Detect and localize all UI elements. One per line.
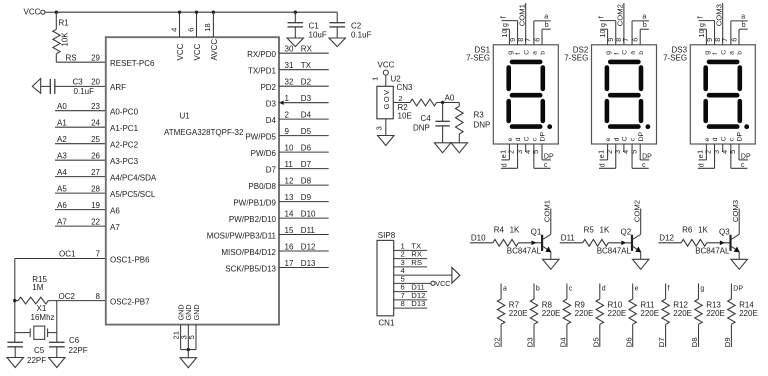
wire COM2 (DS2 pin 8) — [623, 3, 625, 45]
svg-text:7: 7 — [96, 250, 101, 259]
wire D11 — [560, 242, 583, 244]
svg-text:10: 10 — [500, 30, 509, 38]
svg-text:b: b — [638, 51, 645, 55]
svg-text:g: g — [699, 23, 706, 27]
segment e — [506, 101, 511, 121]
svg-text:f: f — [668, 285, 670, 292]
ground — [434, 143, 450, 153]
segment a — [512, 60, 540, 65]
svg-text:COM1: COM1 — [543, 200, 552, 222]
svg-text:TX: TX — [301, 61, 312, 70]
svg-text:A3: A3 — [57, 152, 67, 161]
segment DP — [547, 124, 552, 129]
svg-text:SCK/PB5/D13: SCK/PB5/D13 — [225, 264, 276, 273]
svg-text:OC2: OC2 — [59, 292, 76, 301]
svg-text:RESET-PC6: RESET-PC6 — [110, 59, 155, 68]
wire A3 pin 26 — [55, 159, 106, 161]
wire — [14, 259, 16, 343]
segment e — [703, 101, 708, 121]
svg-text:30: 30 — [285, 45, 294, 54]
svg-text:c: c — [544, 162, 548, 169]
svg-text:R3: R3 — [474, 110, 485, 119]
svg-text:c: c — [531, 137, 538, 141]
resistor R13 220E — [698, 284, 700, 300]
resistor R6 1K — [681, 239, 707, 246]
svg-text:Q2: Q2 — [621, 228, 632, 237]
svg-text:b: b — [536, 285, 540, 292]
svg-text:14: 14 — [285, 209, 294, 218]
svg-text:OSC2-PB7: OSC2-PB7 — [110, 297, 150, 306]
svg-text:a: a — [728, 51, 735, 55]
wire A0 pin 23 — [55, 110, 106, 112]
svg-text:CN3: CN3 — [397, 83, 414, 92]
svg-text:18: 18 — [203, 23, 212, 32]
svg-text:R12: R12 — [673, 300, 688, 309]
wire segment DP (DS3 pin 5) — [738, 144, 740, 160]
svg-text:23: 23 — [91, 102, 100, 111]
svg-text:d: d — [602, 285, 606, 292]
svg-text:f: f — [599, 16, 606, 18]
svg-text:6: 6 — [186, 28, 195, 32]
svg-text:1K: 1K — [600, 225, 610, 234]
wire segment c (DS3 pin 4) — [730, 144, 732, 168]
wire CN1 pin 6 D11 — [394, 291, 428, 293]
svg-text:CN1: CN1 — [378, 319, 395, 328]
svg-text:MOSI/PW/PB3/D11: MOSI/PW/PB3/D11 — [207, 231, 277, 240]
svg-text:PW/D6: PW/D6 — [251, 149, 277, 158]
resistor R7 220E — [500, 284, 502, 300]
svg-text:A0: A0 — [445, 94, 455, 103]
wire segment DP (DS2 pin 5) — [639, 144, 641, 160]
wire COM1 (DS1 pin 8) — [525, 3, 527, 45]
svg-text:D7: D7 — [301, 160, 312, 169]
ground — [7, 358, 23, 368]
wire — [181, 349, 196, 351]
svg-text:f: f — [698, 16, 705, 18]
svg-text:A1: A1 — [57, 119, 67, 128]
svg-text:25: 25 — [91, 135, 100, 144]
capacitor C1 — [294, 12, 296, 23]
svg-text:A4/PC4/SDA: A4/PC4/SDA — [110, 173, 157, 182]
svg-text:D13: D13 — [411, 299, 425, 308]
wire D12 pin 16 — [279, 250, 329, 252]
svg-text:D2: D2 — [301, 78, 312, 87]
wire OC2 pin 8 — [48, 300, 105, 302]
svg-text:c: c — [569, 285, 573, 292]
svg-text:10: 10 — [285, 143, 294, 152]
wire segment g (DS2 pin 10) — [607, 29, 609, 45]
svg-text:d: d — [501, 163, 508, 167]
ground — [329, 38, 345, 47]
wire to base — [518, 242, 542, 244]
segment c — [737, 101, 742, 121]
svg-text:RX/PD0: RX/PD0 — [247, 50, 276, 59]
wire D5 pin 9 — [279, 135, 329, 137]
wire to base — [608, 242, 632, 244]
7-segment display DS3 — [690, 45, 755, 144]
svg-text:11: 11 — [285, 160, 294, 169]
svg-text:d: d — [600, 163, 607, 167]
wire RX pin 30 — [279, 52, 329, 54]
svg-text:f: f — [501, 16, 508, 18]
svg-text:e: e — [704, 137, 711, 141]
svg-text:Q1: Q1 — [531, 228, 542, 237]
ground — [378, 136, 394, 146]
svg-text:X1: X1 — [37, 304, 47, 313]
IC U1 ATMEGA328TQPF-32 — [106, 37, 279, 324]
svg-text:DP: DP — [540, 131, 547, 141]
resistor R9 220E — [566, 284, 568, 300]
svg-text:TX/PD1: TX/PD1 — [248, 67, 277, 76]
svg-text:D3: D3 — [526, 337, 535, 347]
svg-text:220E: 220E — [640, 309, 659, 318]
wire segment e (DS1 pin 1) — [508, 144, 510, 160]
svg-text:0.1uF: 0.1uF — [351, 30, 372, 39]
segment f — [703, 68, 708, 89]
svg-text:7-SEG: 7-SEG — [466, 54, 490, 63]
svg-text:g: g — [700, 285, 704, 292]
wire D10 pin 14 — [279, 217, 329, 219]
svg-text:D8: D8 — [690, 337, 699, 347]
svg-text:220E: 220E — [608, 309, 627, 318]
wire NC (DS3 pin 3) — [722, 144, 724, 152]
segment c — [639, 101, 644, 121]
wire segment b (DS2 pin 6) — [639, 29, 641, 45]
svg-text:COM1: COM1 — [518, 4, 527, 26]
svg-text:D7: D7 — [266, 165, 277, 174]
svg-text:b: b — [545, 22, 549, 29]
wire A1 pin 24 — [55, 126, 106, 128]
svg-text:6: 6 — [729, 38, 738, 42]
svg-text:13: 13 — [285, 193, 294, 202]
wire — [45, 11, 56, 13]
power OVCC (CN1 pin 5) — [431, 281, 435, 285]
svg-text:PB0/D8: PB0/D8 — [248, 182, 276, 191]
resistor R12 220E — [665, 284, 667, 300]
svg-text:A5/PC5/SCL: A5/PC5/SCL — [110, 190, 156, 199]
svg-text:R14: R14 — [739, 300, 754, 309]
wire segment e (DS2 pin 1) — [607, 144, 609, 160]
segment c — [540, 101, 545, 121]
svg-text:D4: D4 — [266, 116, 277, 125]
svg-text:PW/PB2/D10: PW/PB2/D10 — [229, 215, 277, 224]
wire D11 pin 15 — [279, 234, 329, 236]
svg-text:Q3: Q3 — [719, 228, 730, 237]
svg-text:b: b — [540, 51, 547, 55]
segment d — [709, 124, 737, 129]
crystal X1 — [15, 332, 30, 334]
svg-text:D6: D6 — [301, 143, 312, 152]
svg-text:A0: A0 — [57, 102, 67, 111]
svg-text:5: 5 — [187, 335, 196, 339]
wire CN1 pin 3 RS — [394, 266, 428, 268]
svg-text:10E: 10E — [398, 111, 412, 120]
resistor R5 1K — [583, 239, 609, 246]
svg-text:e: e — [698, 154, 705, 158]
capacitor C3 — [32, 79, 40, 94]
wire VCC pin 4 — [179, 12, 181, 37]
svg-text:220E: 220E — [706, 309, 725, 318]
ground pins GND 21 3 5 — [180, 325, 182, 350]
svg-text:8: 8 — [96, 292, 101, 301]
wire segment a (DS1 pin 7) — [533, 21, 535, 45]
svg-text:PW/PD5: PW/PD5 — [245, 132, 276, 141]
wire D4 pin 2 — [279, 118, 329, 120]
wire VCC pin 6 — [196, 12, 198, 37]
wire segment d (DS2 pin 2) — [615, 144, 617, 168]
svg-text:U2: U2 — [391, 74, 402, 83]
svg-text:C4: C4 — [421, 114, 432, 123]
svg-text:6: 6 — [532, 38, 541, 42]
wire CN1 pin 1 TX — [394, 249, 428, 251]
capacitor C4 — [442, 103, 444, 122]
svg-text:C: C — [622, 136, 629, 141]
svg-text:a: a — [630, 51, 637, 55]
arrow output — [452, 268, 460, 284]
wire segment b (DS1 pin 6) — [541, 29, 543, 45]
svg-text:e: e — [599, 154, 606, 158]
wire segment d (DS1 pin 2) — [517, 144, 519, 168]
svg-text:5: 5 — [629, 150, 638, 154]
wire A7 pin 22 — [55, 225, 106, 227]
wire D2 pin 32 — [279, 85, 329, 87]
svg-text:C: C — [523, 136, 530, 141]
svg-text:7-SEG: 7-SEG — [663, 54, 687, 63]
svg-text:a: a — [642, 14, 646, 21]
svg-text:DP: DP — [642, 154, 652, 161]
svg-text:22: 22 — [91, 217, 100, 226]
svg-text:32: 32 — [285, 78, 294, 87]
svg-text:28: 28 — [91, 184, 100, 193]
svg-text:D13: D13 — [301, 259, 316, 268]
wire D7 pin 11 — [279, 168, 329, 170]
svg-text:5: 5 — [728, 150, 737, 154]
wire A6 pin 19 — [55, 209, 106, 211]
svg-text:10: 10 — [598, 30, 607, 38]
node VCC rail — [56, 11, 337, 13]
resistor R3 — [458, 103, 460, 107]
svg-text:D6: D6 — [624, 337, 633, 347]
svg-text:e: e — [635, 285, 639, 292]
arrowhead base — [720, 241, 725, 246]
svg-text:29: 29 — [91, 54, 100, 63]
svg-text:OC1: OC1 — [59, 250, 76, 259]
svg-text:DP: DP — [638, 131, 645, 141]
svg-text:5: 5 — [531, 150, 540, 154]
svg-text:a: a — [741, 14, 745, 21]
ground — [451, 143, 467, 153]
resistor R14 220E — [730, 284, 732, 300]
svg-text:1K: 1K — [698, 225, 708, 234]
wire NC (DS1 pin 3) — [525, 144, 527, 152]
svg-text:7: 7 — [523, 38, 532, 42]
resistor R15 — [18, 297, 48, 304]
svg-text:R6: R6 — [682, 225, 693, 234]
svg-text:15: 15 — [285, 226, 294, 235]
svg-text:g: g — [704, 51, 711, 55]
svg-text:GOV: GOV — [382, 89, 391, 110]
svg-text:COM3: COM3 — [731, 200, 740, 222]
wire TX pin 31 — [279, 69, 329, 71]
svg-text:6: 6 — [631, 38, 640, 42]
wire to base — [707, 242, 731, 244]
svg-text:D4: D4 — [301, 110, 312, 119]
svg-text:3: 3 — [375, 126, 384, 130]
wire segment c (DS1 pin 4) — [533, 144, 535, 168]
svg-text:b: b — [737, 51, 744, 55]
svg-text:A3-PC3: A3-PC3 — [110, 157, 139, 166]
svg-text:e: e — [507, 137, 514, 141]
svg-text:DP: DP — [544, 154, 554, 161]
resistor R1 — [55, 12, 57, 29]
svg-text:BC847AL: BC847AL — [597, 247, 632, 256]
svg-text:D12: D12 — [301, 242, 316, 251]
svg-text:VCC: VCC — [193, 43, 202, 60]
svg-text:DNP: DNP — [413, 123, 430, 132]
wire segment g (DS3 pin 10) — [705, 29, 707, 45]
svg-text:D5: D5 — [591, 337, 600, 347]
svg-text:1: 1 — [371, 77, 380, 81]
svg-text:1M: 1M — [32, 283, 43, 292]
svg-text:10K: 10K — [61, 32, 70, 47]
svg-text:RS: RS — [411, 258, 422, 267]
svg-text:220E: 220E — [542, 309, 561, 318]
svg-text:COM2: COM2 — [616, 4, 625, 26]
svg-text:g: g — [502, 23, 509, 27]
svg-text:R7: R7 — [509, 300, 520, 309]
svg-text:C6: C6 — [69, 336, 80, 345]
svg-text:BC847AL: BC847AL — [507, 247, 542, 256]
wire segment c (DS2 pin 4) — [631, 144, 633, 168]
wire COM3 (DS3 pin 8) — [722, 3, 724, 45]
svg-text:b: b — [742, 22, 746, 29]
ground — [49, 358, 65, 368]
wire CN1 pin 5 — [394, 282, 431, 284]
svg-text:A0-PC0: A0-PC0 — [110, 108, 139, 117]
svg-text:A4: A4 — [57, 168, 67, 177]
svg-text:R8: R8 — [542, 300, 553, 309]
svg-text:220E: 220E — [739, 309, 758, 318]
svg-text:C: C — [622, 50, 629, 55]
segment g — [610, 93, 638, 98]
wire OC1 pin 7 — [15, 258, 106, 260]
wire node A0 — [437, 102, 460, 104]
capacitor C6 — [49, 341, 65, 343]
svg-text:D4: D4 — [559, 337, 568, 348]
svg-text:220E: 220E — [673, 309, 692, 318]
svg-text:f: f — [515, 53, 522, 55]
svg-text:DP: DP — [741, 154, 751, 161]
wire A2 pin 25 — [55, 143, 106, 145]
resistor R4 1K — [493, 239, 519, 246]
svg-text:d: d — [613, 137, 620, 141]
svg-text:D11: D11 — [561, 234, 576, 243]
svg-text:D7: D7 — [657, 337, 666, 347]
svg-text:D5: D5 — [301, 127, 312, 136]
svg-text:R5: R5 — [584, 225, 595, 234]
svg-text:220E: 220E — [575, 309, 594, 318]
svg-text:A1-PC1: A1-PC1 — [110, 124, 139, 133]
svg-text:e: e — [605, 137, 612, 141]
wire D13 pin 17 — [279, 267, 329, 269]
svg-text:a: a — [531, 51, 538, 55]
svg-text:16: 16 — [285, 242, 294, 251]
svg-text:R13: R13 — [706, 300, 721, 309]
svg-text:D3: D3 — [266, 100, 277, 109]
svg-text:A2-PC2: A2-PC2 — [110, 141, 139, 150]
svg-text:ARF: ARF — [110, 83, 126, 92]
svg-text:a: a — [544, 14, 548, 21]
svg-text:VCC: VCC — [24, 8, 41, 17]
segment f — [506, 68, 511, 89]
svg-text:U1: U1 — [180, 112, 191, 121]
svg-text:220E: 220E — [509, 309, 528, 318]
svg-text:BC847AL: BC847AL — [695, 247, 730, 256]
svg-text:A6: A6 — [110, 206, 120, 215]
svg-text:R10: R10 — [608, 300, 623, 309]
svg-text:g: g — [600, 23, 607, 27]
segment e — [605, 101, 610, 121]
segment g — [512, 93, 540, 98]
svg-text:COM3: COM3 — [715, 4, 724, 26]
resistor R8 220E — [533, 284, 535, 300]
svg-text:0.1uF: 0.1uF — [74, 87, 95, 96]
svg-text:VCC: VCC — [176, 43, 185, 60]
svg-text:c: c — [741, 162, 745, 169]
7-segment display DS2 — [592, 45, 657, 144]
resistor R2 — [410, 99, 437, 106]
svg-text:4: 4 — [169, 27, 178, 32]
svg-text:A7: A7 — [57, 217, 67, 226]
svg-text:c: c — [642, 162, 646, 169]
arrowhead base — [621, 241, 626, 246]
segment a — [610, 60, 638, 65]
svg-text:g: g — [605, 51, 612, 55]
connector U2 CN3 — [377, 86, 393, 119]
svg-text:17: 17 — [285, 259, 294, 268]
svg-text:a: a — [503, 285, 507, 292]
svg-text:C5: C5 — [34, 346, 45, 355]
svg-text:24: 24 — [91, 119, 100, 128]
wire segment g (DS1 pin 10) — [508, 29, 510, 45]
svg-text:PW/PB1/D9: PW/PB1/D9 — [233, 198, 276, 207]
svg-text:C: C — [720, 136, 727, 141]
svg-text:COM2: COM2 — [633, 200, 642, 222]
ground — [180, 358, 196, 368]
wire CN1 pin 2 RX — [394, 258, 428, 260]
svg-text:c: c — [630, 137, 637, 141]
wire A4 pin 27 — [55, 176, 106, 178]
svg-text:D10: D10 — [301, 209, 316, 218]
svg-text:31: 31 — [285, 61, 294, 70]
svg-text:2: 2 — [398, 94, 402, 103]
svg-text:OSC1-PB6: OSC1-PB6 — [110, 255, 150, 264]
svg-text:A2: A2 — [57, 135, 67, 144]
svg-text:10: 10 — [697, 30, 706, 38]
svg-text:D12: D12 — [659, 234, 674, 243]
svg-text:D9: D9 — [301, 193, 312, 202]
svg-text:C: C — [523, 50, 530, 55]
svg-text:D10: D10 — [471, 234, 486, 243]
svg-text:f: f — [712, 53, 719, 55]
svg-text:ATMEGA328TQPF-32: ATMEGA328TQPF-32 — [164, 128, 244, 137]
svg-text:1K: 1K — [510, 225, 520, 234]
segment d — [512, 124, 540, 129]
svg-text:2: 2 — [285, 110, 290, 119]
ground — [731, 259, 747, 269]
svg-text:12: 12 — [285, 176, 294, 185]
svg-text:A7: A7 — [110, 223, 120, 232]
